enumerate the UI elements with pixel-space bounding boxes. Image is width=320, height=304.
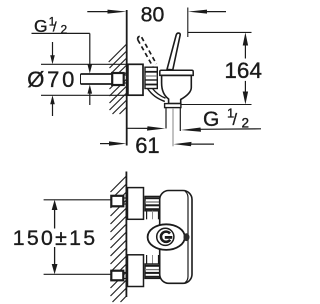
dim 164 upper arrow	[243, 32, 248, 58]
svg-text:150±15: 150±15	[13, 226, 98, 250]
solid lever handle	[167, 33, 180, 70]
escutcheon (side view)	[128, 64, 143, 95]
outlet centerline	[172, 108, 174, 146]
svg-text:Ø70: Ø70	[27, 67, 77, 92]
body highlight line	[185, 191, 188, 283]
G 1/2 bottom leader with left arrow to pipe	[181, 128, 261, 132]
svg-text:164: 164	[224, 58, 262, 83]
wall hatching (lower diagram)	[111, 176, 127, 302]
dim 150 bottom extension line	[44, 273, 111, 275]
knob outer ellipse	[148, 224, 185, 250]
dim 150 top extension line	[44, 199, 111, 201]
dim 80 right arrow	[188, 10, 226, 14]
wall line (lower diagram)	[125, 172, 127, 298]
dim 164 lower arrow	[243, 81, 248, 105]
opposing right arrow from wall to pipe (G1/2)	[127, 126, 165, 130]
outlet fitting	[165, 104, 181, 108]
dim 150 lower arrow	[52, 247, 58, 274]
knob side nub	[184, 233, 190, 241]
lower nipple through wall	[124, 272, 128, 274]
dim 80 right extension line	[187, 8, 189, 38]
svg-text:2: 2	[242, 116, 250, 131]
upper connection sleeve	[147, 211, 159, 220]
dia70 upper arrow	[50, 42, 55, 64]
lower connection sleeve	[147, 255, 159, 264]
dia70 lower arrow	[50, 95, 55, 116]
svg-text:61: 61	[135, 133, 159, 158]
outlet pipe (cut)	[165, 108, 167, 129]
upper escutcheon (lower diagram)	[128, 188, 144, 220]
mixer body cup (side view)	[162, 75, 192, 103]
svg-text:G: G	[34, 16, 48, 36]
upper connection nut	[145, 196, 160, 210]
dia70 top extension line	[41, 63, 128, 65]
G 1/2 top underline	[32, 32, 90, 34]
dim 164 bottom extension line	[181, 104, 252, 106]
nipple through wall	[124, 74, 128, 76]
mixer body cap (side view)	[160, 70, 193, 75]
mixer body capsule (lower diagram)	[160, 191, 192, 284]
union square fitting (in-wall)	[112, 73, 124, 85]
wall line (top diagram)	[126, 10, 128, 146]
supply pipe G1/2 (in-wall, side view)	[81, 74, 113, 84]
G 1/2 leader down arrow to pipe top	[88, 33, 93, 73]
lower connection nut	[145, 264, 160, 278]
G 1/2 opposing up arrow to pipe bottom	[88, 85, 93, 105]
dim 61 left arrow	[100, 141, 126, 145]
dim 150 upper arrow	[52, 200, 58, 229]
connection hex nut (side view)	[145, 67, 157, 88]
svg-text:/: /	[233, 111, 238, 129]
dim 80 left arrow	[87, 10, 126, 14]
S-union under-curve	[148, 89, 165, 102]
upper in-wall square fitting	[111, 196, 123, 207]
dim 164 top extension line	[188, 31, 252, 33]
dashed lever (alternate position)	[138, 36, 157, 66]
svg-text:/: /	[53, 19, 57, 35]
knob inner ring	[157, 228, 174, 245]
svg-text:80: 80	[141, 2, 165, 26]
svg-text:2: 2	[61, 22, 68, 36]
dia70 bottom extension line	[41, 94, 128, 96]
lower in-wall square fitting	[111, 271, 123, 281]
lower escutcheon (lower diagram)	[128, 255, 144, 287]
svg-text:G: G	[203, 108, 219, 131]
dim 61 right arrow	[174, 142, 215, 146]
wall hatching (top diagram)	[109, 44, 127, 114]
knob G mark	[161, 232, 170, 242]
upper nipple through wall	[124, 197, 128, 199]
